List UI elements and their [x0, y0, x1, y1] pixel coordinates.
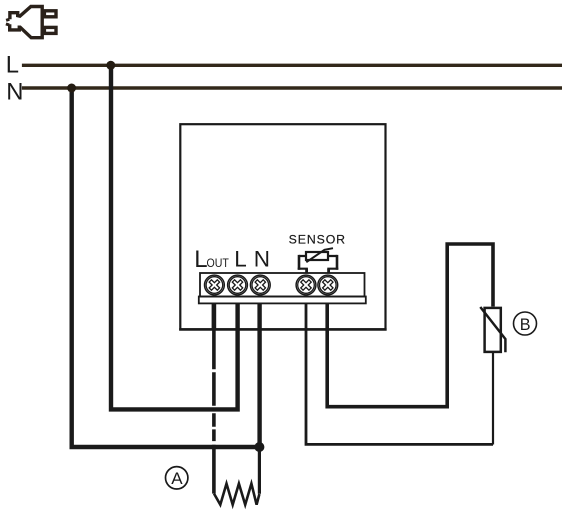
svg-text:L: L	[234, 246, 247, 271]
svg-text:N: N	[6, 79, 23, 106]
svg-text:L: L	[6, 51, 19, 78]
svg-text:SENSOR: SENSOR	[289, 233, 346, 247]
svg-text:B: B	[520, 316, 531, 334]
svg-text:OUT: OUT	[207, 256, 229, 270]
svg-text:A: A	[171, 469, 183, 488]
svg-text:N: N	[254, 246, 270, 271]
